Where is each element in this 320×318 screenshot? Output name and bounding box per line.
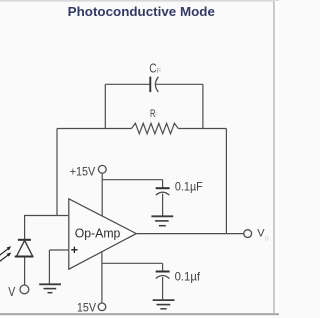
svg-text:C: C	[149, 62, 156, 76]
svg-text:0.1µf: 0.1µf	[175, 270, 201, 283]
svg-text:Photoconductive Mode: Photoconductive Mode	[68, 4, 215, 19]
svg-text:+15V: +15V	[70, 166, 96, 179]
svg-text:F: F	[157, 68, 161, 75]
svg-text:Op-Amp: Op-Amp	[75, 226, 121, 241]
svg-text:15V: 15V	[77, 301, 96, 314]
svg-text:o: o	[265, 236, 269, 243]
svg-text:V: V	[8, 285, 16, 299]
svg-text:0.1µF: 0.1µF	[175, 181, 203, 194]
svg-text:F: F	[155, 112, 158, 119]
